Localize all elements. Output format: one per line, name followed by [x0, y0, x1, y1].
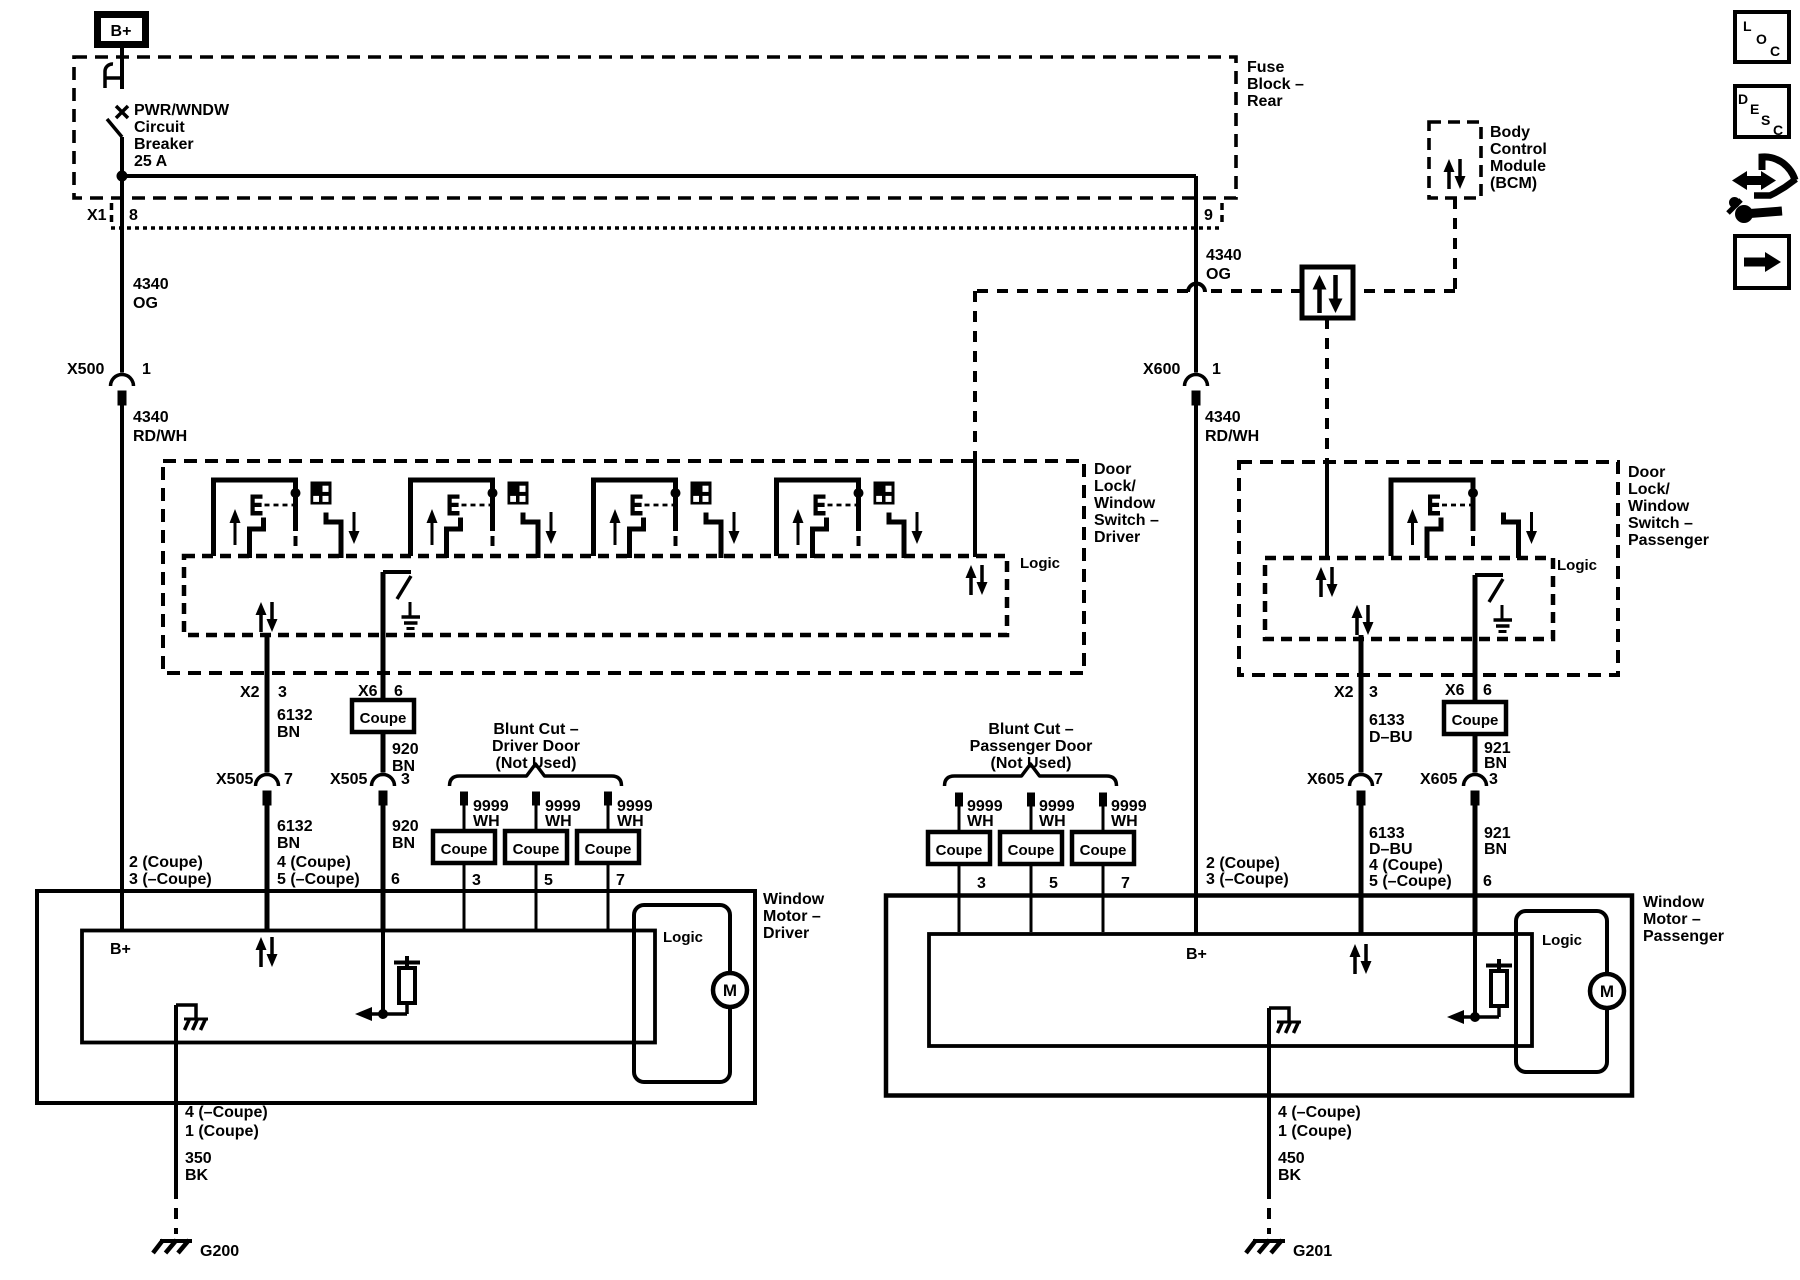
svg-text:6: 6	[391, 871, 400, 888]
svg-text:Logic: Logic	[663, 929, 703, 946]
driver logic up/down arrows left	[256, 602, 278, 632]
passenger switch contact group	[1391, 480, 1478, 558]
motor M passenger	[1590, 974, 1624, 1008]
wire 6133 D-BU to passenger motor	[1359, 801, 1364, 934]
svg-text:4 (–Coupe): 4 (–Coupe)	[185, 1104, 268, 1121]
svg-text:6: 6	[394, 683, 403, 700]
svg-text:4 (Coupe): 4 (Coupe)	[1369, 857, 1443, 874]
dashed wire BCM corner to arrow box	[1353, 289, 1455, 293]
driver logic up/down arrows right	[966, 565, 988, 595]
dashed wire to G201	[1267, 1188, 1271, 1234]
connector X505 pin 7	[256, 775, 279, 806]
ground G200	[153, 1240, 192, 1253]
coupe box blunt e	[1000, 832, 1062, 864]
svg-text:Window: Window	[1643, 894, 1705, 911]
svg-text:G201: G201	[1293, 1243, 1332, 1260]
svg-text:Body: Body	[1490, 124, 1530, 141]
svg-text:7: 7	[1121, 875, 1130, 892]
blunt cut wire 9999 WH f	[1100, 793, 1107, 932]
bus wire across fuse block	[122, 174, 1196, 178]
svg-text:WH: WH	[473, 813, 500, 830]
svg-text:WH: WH	[1039, 813, 1066, 830]
window icon 3	[691, 482, 711, 504]
coupe box blunt f	[1072, 832, 1134, 864]
svg-text:Logic: Logic	[1557, 557, 1597, 574]
svg-text:Driver Door: Driver Door	[492, 738, 580, 755]
svg-text:RD/WH: RD/WH	[133, 428, 187, 445]
svg-text:2 (Coupe): 2 (Coupe)	[1206, 855, 1280, 872]
svg-text:3: 3	[1489, 771, 1498, 788]
svg-text:D: D	[1738, 91, 1748, 107]
svg-text:920: 920	[392, 818, 419, 835]
wire label 921 BN upper	[1484, 740, 1511, 772]
driver switch logic dashed box	[184, 556, 1007, 635]
passenger motor chassis ground	[1269, 1008, 1301, 1033]
hotlink outline arrow	[1754, 157, 1796, 196]
svg-text:Passenger: Passenger	[1628, 532, 1709, 549]
svg-text:Logic: Logic	[1542, 932, 1582, 949]
svg-text:3 (–Coupe): 3 (–Coupe)	[129, 871, 212, 888]
svg-text:C: C	[1770, 43, 1780, 59]
svg-text:350: 350	[185, 1150, 212, 1167]
wire 4340 RD/WH left down to driver window motor	[120, 401, 124, 931]
passenger X2 output wire	[1359, 635, 1364, 773]
svg-text:5: 5	[1049, 875, 1058, 892]
blunt cut brace driver	[450, 764, 622, 786]
door lock/window switch driver dashed box	[163, 461, 1084, 673]
svg-text:6132: 6132	[277, 818, 313, 835]
svg-text:BN: BN	[1484, 841, 1507, 858]
blunt cut wire 9999 WH a	[461, 792, 468, 931]
passenger switch logic dashed box	[1265, 558, 1553, 639]
label 9999 WH a	[473, 798, 509, 830]
svg-text:M: M	[1600, 982, 1614, 1001]
svg-text:C: C	[1773, 122, 1783, 138]
passenger logic up/down arrows lower	[1352, 605, 1374, 635]
svg-text:1 (Coupe): 1 (Coupe)	[1278, 1123, 1352, 1140]
svg-text:6: 6	[1483, 682, 1492, 699]
driver motor pin labels left	[129, 854, 212, 888]
svg-text:X6: X6	[1445, 682, 1465, 699]
dashed wire to G200	[174, 1188, 178, 1234]
svg-text:4 (Coupe): 4 (Coupe)	[277, 854, 351, 871]
svg-text:7: 7	[284, 771, 293, 788]
svg-text:Door: Door	[1094, 461, 1131, 478]
svg-text:Window: Window	[1628, 498, 1690, 515]
svg-text:4340: 4340	[133, 409, 169, 426]
solid wire inside passenger switch to logic	[1325, 462, 1329, 559]
svg-text:25 A: 25 A	[134, 153, 168, 170]
hotlink wrench	[1728, 198, 1782, 223]
dashed wire arrow box to hop	[1205, 289, 1302, 293]
svg-text:Driver: Driver	[763, 925, 809, 942]
svg-text:RD/WH: RD/WH	[1205, 428, 1259, 445]
svg-text:X505: X505	[216, 771, 253, 788]
svg-text:WH: WH	[545, 813, 572, 830]
svg-text:G200: G200	[200, 1243, 239, 1260]
svg-text:Rear: Rear	[1247, 93, 1283, 110]
connector X605 pin 3	[1464, 775, 1487, 806]
svg-text:Logic: Logic	[1020, 555, 1060, 572]
svg-text:L: L	[1743, 18, 1752, 34]
label 9999 WH b	[545, 798, 581, 830]
window motor driver label	[763, 891, 825, 942]
blunt cut driver label	[492, 721, 580, 772]
svg-text:6133: 6133	[1369, 712, 1405, 729]
blunt cut wire 9999 WH e	[1028, 793, 1035, 932]
svg-text:Circuit: Circuit	[134, 119, 185, 136]
wire label 4340 OG left	[133, 276, 169, 312]
door lock/window switch passenger dashed box	[1239, 462, 1618, 675]
svg-text:X505: X505	[330, 771, 367, 788]
coupe box X6 passenger	[1444, 702, 1506, 734]
svg-text:E: E	[1750, 101, 1759, 117]
svg-text:Door: Door	[1628, 464, 1665, 481]
svg-text:(Not Used): (Not Used)	[991, 755, 1072, 772]
wire 921 BN to passenger motor	[1473, 801, 1478, 934]
coupe box blunt a	[433, 831, 495, 863]
connector X600	[1185, 375, 1208, 406]
switch contact group 2 right	[523, 512, 557, 558]
driver motor position sensor resistor	[355, 956, 420, 1021]
wire label 920 BN lower	[392, 818, 419, 852]
blunt cut wire 9999 WH d	[956, 793, 963, 932]
svg-text:WH: WH	[967, 813, 994, 830]
wire 6132 BN to driver motor	[265, 801, 270, 931]
wire breaker to bus	[120, 137, 124, 176]
svg-text:D–BU: D–BU	[1369, 841, 1413, 858]
svg-text:Blunt Cut –: Blunt Cut –	[493, 721, 578, 738]
wire label 6132 BN lower	[277, 818, 313, 852]
svg-text:Passenger Door: Passenger Door	[970, 738, 1093, 755]
svg-text:B+: B+	[111, 23, 132, 40]
switch contact group 4 right	[889, 512, 923, 558]
svg-text:Motor –: Motor –	[1643, 911, 1701, 928]
window motor driver inner box	[82, 931, 655, 1043]
driver exit pin labels	[185, 1104, 268, 1140]
svg-text:BK: BK	[1278, 1167, 1302, 1184]
driver X6 wire from lock switch	[381, 572, 386, 700]
passenger exit pin labels	[1278, 1104, 1361, 1140]
wire label 6133 D-BU lower	[1369, 825, 1413, 858]
body control module dashed box	[1429, 122, 1481, 198]
svg-text:Passenger: Passenger	[1643, 928, 1724, 945]
svg-text:8: 8	[129, 207, 138, 224]
wire 920 BN to driver motor	[381, 801, 386, 931]
svg-text:5 (–Coupe): 5 (–Coupe)	[1369, 873, 1452, 890]
svg-text:OG: OG	[133, 295, 158, 312]
svg-text:X1: X1	[87, 207, 107, 224]
PWR/WNDW circuit breaker label	[134, 102, 230, 170]
svg-text:(Not Used): (Not Used)	[496, 755, 577, 772]
passenger X6 wire from lock switch	[1473, 575, 1478, 702]
coupe box blunt b	[505, 831, 567, 863]
svg-text:D–BU: D–BU	[1369, 729, 1413, 746]
wire label 4340 OG right	[1206, 247, 1242, 283]
svg-text:3: 3	[401, 771, 410, 788]
driver motor pin labels mid	[277, 854, 360, 888]
connector X605 pin 7	[1350, 775, 1373, 806]
svg-text:5: 5	[544, 872, 553, 889]
switch contact group 1 right	[326, 512, 360, 558]
circuit breaker hook	[105, 64, 122, 88]
svg-text:920: 920	[392, 741, 419, 758]
label 9999 WH c	[617, 798, 653, 830]
window icon 1	[311, 482, 331, 504]
svg-text:Switch –: Switch –	[1628, 515, 1693, 532]
svg-text:7: 7	[616, 872, 625, 889]
passenger motor wire to resistor junction	[1473, 934, 1477, 1017]
svg-text:Blunt Cut –: Blunt Cut –	[988, 721, 1073, 738]
window motor passenger label	[1643, 894, 1724, 945]
svg-text:PWR/WNDW: PWR/WNDW	[134, 102, 230, 119]
label 9999 WH e	[1039, 798, 1075, 830]
junction dot	[117, 171, 127, 181]
svg-text:BN: BN	[277, 835, 300, 852]
connector X1 separator left	[110, 203, 114, 227]
svg-text:Fuse: Fuse	[1247, 59, 1284, 76]
svg-text:BK: BK	[185, 1167, 209, 1184]
wire label 450 BK	[1278, 1150, 1305, 1184]
switch contact group 1	[214, 480, 301, 558]
circuit breaker blade	[107, 119, 122, 137]
svg-text:X2: X2	[1334, 684, 1354, 701]
switch contact group 2	[411, 480, 498, 558]
svg-text:Window: Window	[763, 891, 825, 908]
dashed wire hop to driver switch	[975, 289, 1188, 293]
passenger motor up/down arrows	[1350, 944, 1372, 974]
svg-text:4340: 4340	[1206, 247, 1242, 264]
hotlink double arrow	[1732, 171, 1776, 190]
driver ground exit wire 350 BK	[174, 1005, 178, 1188]
passenger motor pin labels mid	[1369, 857, 1452, 890]
svg-text:X600: X600	[1143, 361, 1180, 378]
svg-text:Lock/: Lock/	[1094, 478, 1136, 495]
wire 4340 RD/WH right down to passenger window motor	[1194, 401, 1198, 934]
svg-text:Window: Window	[1094, 495, 1156, 512]
wire label 4340 RD/WH left	[133, 409, 187, 445]
window motor passenger outer box	[886, 896, 1632, 1096]
BCM up/down arrows	[1444, 159, 1466, 189]
wire label 921 BN lower	[1484, 825, 1511, 858]
connector X500	[111, 375, 134, 406]
passenger lock switch to ground	[1475, 575, 1512, 632]
svg-text:1: 1	[1212, 361, 1221, 378]
inline up/down arrow box	[1302, 267, 1353, 318]
wire right 4340 OG down to X600	[1194, 176, 1198, 373]
svg-text:6132: 6132	[277, 707, 313, 724]
svg-text:4340: 4340	[133, 276, 169, 293]
coupe box X6 driver	[352, 700, 414, 732]
svg-text:4 (–Coupe): 4 (–Coupe)	[1278, 1104, 1361, 1121]
svg-text:WH: WH	[617, 813, 644, 830]
svg-text:1 (Coupe): 1 (Coupe)	[185, 1123, 259, 1140]
driver switch label	[1094, 461, 1159, 546]
svg-text:BN: BN	[277, 724, 300, 741]
driver motor logic box	[634, 905, 730, 1082]
driver motor up/down arrows	[256, 937, 278, 967]
svg-text:X605: X605	[1420, 771, 1457, 788]
svg-text:Block –: Block –	[1247, 76, 1304, 93]
svg-text:4340: 4340	[1205, 409, 1241, 426]
window motor passenger inner box	[929, 934, 1532, 1046]
DESC icon box	[1735, 86, 1789, 138]
svg-text:Switch –: Switch –	[1094, 512, 1159, 529]
svg-text:Driver: Driver	[1094, 529, 1140, 546]
fuse block - rear dashed box	[74, 57, 1236, 198]
svg-text:3 (–Coupe): 3 (–Coupe)	[1206, 871, 1289, 888]
wire label 920 BN upper	[392, 741, 419, 775]
svg-text:M: M	[723, 981, 737, 1000]
svg-text:5 (–Coupe): 5 (–Coupe)	[277, 871, 360, 888]
wire hop over 4340 OG	[1188, 284, 1205, 293]
svg-text:(BCM): (BCM)	[1490, 175, 1537, 192]
svg-text:921: 921	[1484, 825, 1511, 842]
wire coupe to X605	[1473, 734, 1478, 773]
passenger motor position sensor resistor	[1447, 959, 1512, 1024]
svg-text:3: 3	[278, 684, 287, 701]
svg-text:X2: X2	[240, 684, 260, 701]
blunt cut wire 9999 WH b	[533, 792, 540, 931]
svg-text:BN: BN	[1484, 755, 1507, 772]
svg-text:X6: X6	[358, 683, 378, 700]
svg-text:7: 7	[1374, 771, 1383, 788]
connector X1 separator right	[1220, 203, 1224, 227]
wire coupe to X505	[381, 732, 386, 773]
svg-text:OG: OG	[1206, 266, 1231, 283]
svg-text:1: 1	[142, 361, 151, 378]
forward arrow icon box	[1735, 236, 1789, 288]
window motor driver outer box	[37, 891, 755, 1103]
label 9999 WH f	[1111, 798, 1147, 830]
passenger motor pin labels left	[1206, 855, 1289, 888]
svg-text:X605: X605	[1307, 771, 1344, 788]
svg-text:Lock/: Lock/	[1628, 481, 1670, 498]
driver motor wire to resistor junction	[381, 931, 385, 1015]
blunt cut wire 9999 WH c	[605, 792, 612, 931]
coupe box blunt c	[577, 831, 639, 863]
switch contact group 3	[594, 480, 681, 558]
svg-text:X500: X500	[67, 361, 104, 378]
svg-text:B+: B+	[1186, 946, 1207, 963]
wire left 4340 OG down to X500	[120, 176, 124, 373]
fuse block label	[1247, 59, 1304, 110]
svg-text:Motor –: Motor –	[763, 908, 821, 925]
passenger switch label	[1628, 464, 1709, 549]
dashed wire from BCM down	[1453, 198, 1457, 291]
wire label 4340 RD/WH right	[1205, 409, 1259, 445]
LOC icon box	[1735, 12, 1789, 62]
svg-text:6: 6	[1483, 873, 1492, 890]
svg-text:2 (Coupe): 2 (Coupe)	[129, 854, 203, 871]
passenger switch contact group right	[1504, 512, 1538, 558]
svg-text:O: O	[1756, 31, 1767, 47]
svg-text:S: S	[1761, 112, 1770, 128]
blunt cut passenger label	[970, 721, 1093, 772]
wire label 350 BK	[185, 1150, 212, 1184]
BCM label	[1490, 124, 1547, 192]
wire label 6132 BN upper	[277, 707, 313, 741]
driver motor chassis ground	[176, 1005, 208, 1030]
passenger logic up/down arrows upper	[1316, 567, 1338, 597]
circuit breaker thermal mark	[116, 106, 128, 118]
svg-text:3: 3	[472, 872, 481, 889]
dashed wire down to driver switch box	[973, 291, 977, 461]
svg-text:9: 9	[1204, 207, 1213, 224]
motor M driver	[713, 973, 747, 1007]
window icon 2	[508, 482, 528, 504]
passenger motor logic box	[1516, 911, 1607, 1072]
dashed wire arrow box down to passenger switch box	[1325, 318, 1329, 462]
svg-text:6133: 6133	[1369, 825, 1405, 842]
passenger ground exit wire 450 BK	[1267, 1008, 1271, 1188]
solid wire inside driver switch to logic	[973, 461, 977, 557]
switch contact group 3 right	[706, 512, 740, 558]
svg-text:3: 3	[977, 875, 986, 892]
svg-text:B+: B+	[110, 941, 131, 958]
svg-text:Breaker: Breaker	[134, 136, 194, 153]
wire from B+ to breaker	[120, 48, 124, 89]
switch contact group 4	[777, 480, 864, 558]
svg-text:WH: WH	[1111, 813, 1138, 830]
driver lock switch to ground	[383, 572, 420, 629]
wire label 6133 D-BU upper	[1369, 712, 1413, 746]
connector X1 dotted line	[111, 226, 1222, 230]
svg-text:Module: Module	[1490, 158, 1546, 175]
coupe box blunt d	[928, 832, 990, 864]
svg-text:3: 3	[1369, 684, 1378, 701]
B+ battery feed box	[98, 15, 146, 45]
label 9999 WH d	[967, 798, 1003, 830]
ground G201	[1246, 1240, 1285, 1253]
blunt cut brace passenger	[945, 764, 1117, 786]
connector X505 pin 3	[372, 775, 395, 806]
driver X2 output wire	[265, 633, 270, 773]
svg-text:450: 450	[1278, 1150, 1305, 1167]
svg-text:BN: BN	[392, 835, 415, 852]
svg-text:Control: Control	[1490, 141, 1547, 158]
window icon 4	[874, 482, 894, 504]
